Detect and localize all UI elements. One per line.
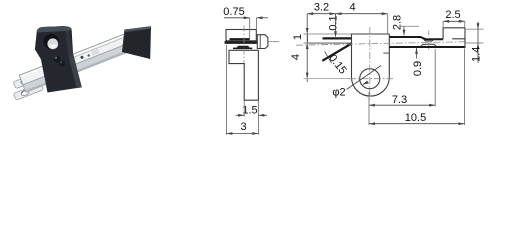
photo: upper fork leaf (13, 71, 43, 88)
front view: centerline (243, 26, 245, 64)
photo: right terminal block (122, 26, 151, 59)
side view: terminal block (443, 28, 465, 39)
svg-text:1.4: 1.4 (471, 47, 483, 62)
side view: strip phantom top line left (304, 33, 352, 35)
side view: thick silver layer line (323, 37, 352, 39)
front view: terminal centre tick (268, 41, 279, 43)
side view: hole circle (360, 69, 380, 89)
svg-text:0.1: 0.1 (328, 15, 340, 30)
svg-text:10.5: 10.5 (405, 112, 426, 124)
side view: block outline with round bottom (352, 34, 390, 96)
front view: inner vertical line / ext of 0.75 (249, 18, 251, 41)
dimension phi2 with leader (332, 66, 381, 99)
front view: lower block and leg outline (229, 50, 258, 100)
side view: crosshair vertical (369, 27, 371, 100)
photo: molded block with ear and hole (35, 26, 82, 92)
svg-text:1: 1 (292, 34, 304, 40)
svg-text:0.15: 0.15 (326, 52, 349, 76)
front view: terminal outline (257, 35, 268, 49)
svg-text:2.8: 2.8 (391, 15, 403, 30)
svg-text:0.9: 0.9 (412, 61, 424, 76)
photo: lower fork leaf (13, 83, 43, 101)
svg-text:4: 4 (349, 1, 355, 13)
dimension 1.4 (466, 22, 484, 63)
side view: right end edge (464, 28, 466, 48)
side view: strip right top thick with dimple (390, 37, 444, 39)
photo: rivet boss on block face (54, 56, 61, 63)
side view: crosshair horizontal (349, 78, 393, 80)
dimension 10.5 (369, 49, 465, 126)
front view: rivet base bar (233, 48, 252, 50)
side view: strip right bottom thick with dimple (390, 46, 465, 48)
dimension 0.1 leader (328, 14, 340, 38)
dimension 0.9 (399, 26, 424, 76)
side view: 0.15 perpendicular tick (325, 51, 332, 63)
photo: strip group rotated (8, 30, 143, 100)
front view: rivet dome (237, 46, 250, 48)
photo: strip bar front face (23, 39, 141, 92)
side view: top dimple pocket (424, 39, 434, 41)
svg-text:φ2: φ2 (332, 87, 345, 99)
dimension 0.75 (223, 6, 268, 19)
dimension 3.2 and 4 top (307, 1, 388, 33)
svg-text:0.75: 0.75 (223, 6, 244, 18)
front view: thick inner strip line (230, 38, 250, 40)
side view: dimple centerline (428, 31, 430, 51)
front view: right ext of 0.75 (256, 18, 258, 30)
dimension 1 and 4 left (290, 14, 351, 82)
dimension 3 (226, 45, 258, 135)
svg-text:1.5: 1.5 (242, 105, 257, 117)
side view: strip bottom line left (304, 42, 352, 44)
side view: strip left end edge (307, 34, 309, 43)
front view: upper block outline (226, 30, 256, 41)
front view: dark band (strip edge-on) (225, 41, 258, 44)
svg-text:3.2: 3.2 (314, 1, 329, 13)
svg-text:3: 3 (240, 121, 246, 133)
svg-text:2.5: 2.5 (445, 9, 460, 21)
side view: bottom dimple bump (421, 44, 436, 46)
photo: silver layer seam (65, 33, 135, 60)
svg-text:7.3: 7.3 (392, 94, 407, 106)
dimension 1.5 (236, 100, 268, 117)
side view: block inner step line (383, 52, 389, 54)
dimension 2.5 (443, 9, 465, 28)
dimension 7.3 (369, 49, 435, 125)
photo: rivet dots on strip (80, 55, 84, 59)
svg-text:4: 4 (290, 54, 302, 60)
photo: hole in ear (43, 34, 59, 50)
side view: bent leaf thick diagonal (322, 44, 351, 61)
side view: sloped centerline (296, 42, 466, 46)
photo: main metal strip bar top face (19, 30, 141, 92)
